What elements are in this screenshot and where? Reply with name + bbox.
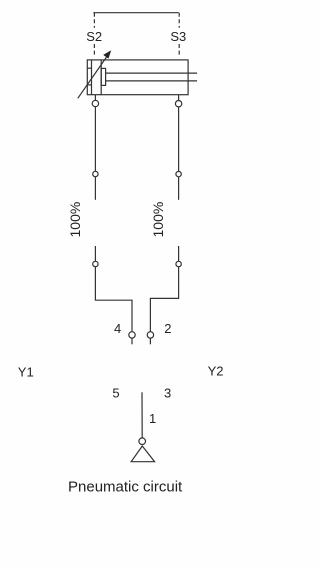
adjustability arrow [78,56,108,99]
svg-text:5: 5 [112,386,119,401]
wire into left flow valve [94,177,96,200]
flow control valve V1 (left, one-way) [0,0,1,1]
cylinder left port [94,95,96,101]
measuring scale ruler [93,12,179,14]
compressed air supply triangle [131,446,154,462]
svg-text:Y1: Y1 [18,365,34,380]
svg-text:2: 2 [164,321,171,336]
wire below right flow valve [178,246,180,261]
5/2-way valve V3 [0,0,1,1]
wire: cylinder left port to node [94,107,96,172]
wire into right flow valve [178,177,180,200]
svg-text:S3: S3 [170,29,186,44]
distance guide S3 (dashed) [178,13,180,55]
wire below left flow valve [94,246,96,261]
node on left wire [93,171,98,176]
supply node circle [139,438,146,445]
wire: cylinder right port to node [178,107,180,171]
node on right wire [176,171,181,176]
svg-text:100%: 100% [150,202,166,238]
svg-text:Y2: Y2 [208,364,224,379]
svg-text:4: 4 [114,321,121,336]
svg-text:3: 3 [164,386,171,401]
svg-text:1: 1 [149,411,156,426]
cylinder A1 (double-acting, adjustable cushioning) [78,50,197,98]
cylinder right port [178,95,180,101]
svg-text:Pneumatic circuit: Pneumatic circuit [68,479,183,496]
distance guide S2 (dashed) [93,13,95,55]
flow control valve V2 (right, one-way) [0,0,1,1]
wire port1 to supply [141,392,143,438]
port 2 circle [147,332,153,338]
svg-text:100%: 100% [67,202,83,238]
port 4 circle [129,332,135,338]
svg-text:S2: S2 [86,29,102,44]
